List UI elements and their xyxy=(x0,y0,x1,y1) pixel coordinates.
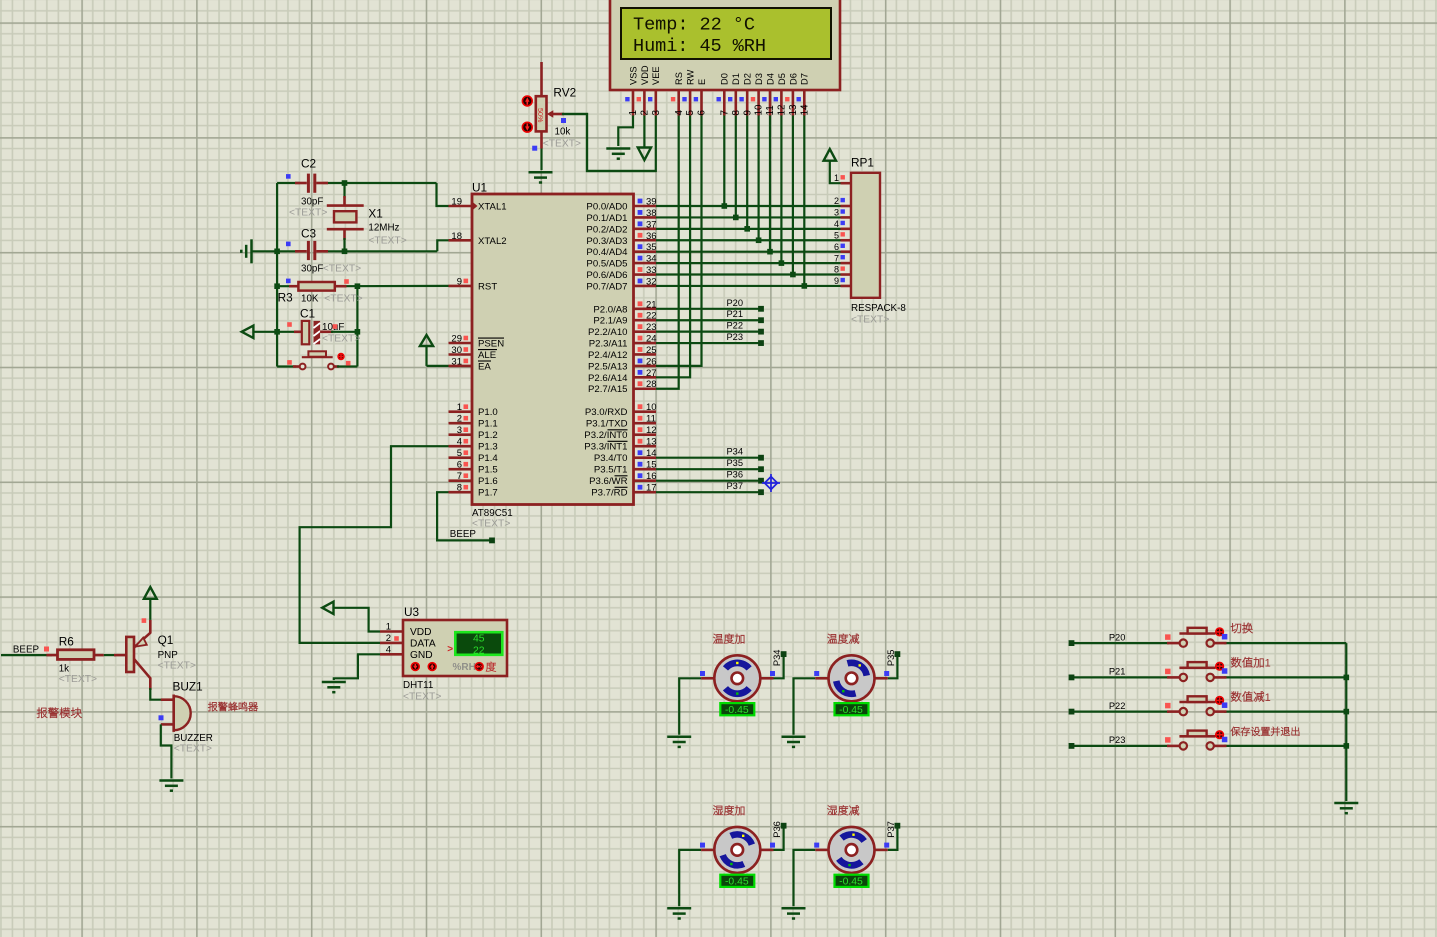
svg-text:P2.6/A14: P2.6/A14 xyxy=(588,373,628,384)
svg-text:9: 9 xyxy=(742,110,753,115)
svg-text:Q1: Q1 xyxy=(158,633,174,647)
svg-text:U3: U3 xyxy=(404,605,420,619)
svg-text:16: 16 xyxy=(646,471,657,482)
svg-text:50%: 50% xyxy=(536,108,545,123)
svg-text:38: 38 xyxy=(646,208,657,219)
svg-text:P0.6/AD6: P0.6/AD6 xyxy=(586,270,627,281)
svg-text:P0.2/AD2: P0.2/AD2 xyxy=(586,224,627,235)
svg-text:RS: RS xyxy=(674,72,684,85)
svg-text:DATA: DATA xyxy=(410,638,436,649)
svg-text:<TEXT>: <TEXT> xyxy=(289,208,327,219)
svg-text:D7: D7 xyxy=(800,73,810,85)
svg-text:9: 9 xyxy=(457,276,462,287)
svg-text:P3.5/T1: P3.5/T1 xyxy=(594,465,628,476)
svg-text:P3.2/INT0: P3.2/INT0 xyxy=(584,430,627,441)
svg-text:P1.5: P1.5 xyxy=(478,465,498,476)
svg-text:39: 39 xyxy=(646,197,657,208)
svg-text:34: 34 xyxy=(646,254,657,265)
svg-text:VSS: VSS xyxy=(628,66,638,85)
svg-text:C2: C2 xyxy=(301,157,316,171)
svg-text:2: 2 xyxy=(834,196,839,206)
svg-text:P21: P21 xyxy=(726,309,743,319)
svg-text:13: 13 xyxy=(646,437,657,448)
svg-text:7: 7 xyxy=(457,471,462,482)
svg-text:P20: P20 xyxy=(1109,632,1126,642)
svg-text:22: 22 xyxy=(646,311,657,322)
svg-text:BUZZER: BUZZER xyxy=(174,733,213,744)
svg-text:4: 4 xyxy=(674,110,685,116)
svg-text:45: 45 xyxy=(473,634,485,645)
svg-text:X1: X1 xyxy=(368,207,382,221)
svg-text:P1.2: P1.2 xyxy=(478,430,498,441)
svg-text:3: 3 xyxy=(457,425,462,436)
svg-text:>: > xyxy=(447,644,453,655)
svg-text:P2.0/A8: P2.0/A8 xyxy=(593,304,627,315)
svg-text:RP1: RP1 xyxy=(851,156,874,170)
svg-text:33: 33 xyxy=(646,265,657,276)
svg-text:P1.0: P1.0 xyxy=(478,407,498,418)
svg-text:P1.3: P1.3 xyxy=(478,442,498,453)
svg-text:1k: 1k xyxy=(59,664,69,675)
svg-text:10k: 10k xyxy=(555,126,571,137)
svg-text:P0.5/AD5: P0.5/AD5 xyxy=(586,259,627,270)
svg-text:2: 2 xyxy=(386,633,391,644)
svg-text:8: 8 xyxy=(731,110,742,116)
svg-text:P3.7/RD: P3.7/RD xyxy=(591,488,627,499)
svg-text:4: 4 xyxy=(386,644,391,655)
svg-text:P1.7: P1.7 xyxy=(478,488,498,499)
svg-text:6: 6 xyxy=(457,460,462,471)
svg-text:14: 14 xyxy=(799,104,810,115)
svg-text:29: 29 xyxy=(451,334,462,345)
svg-text:D4: D4 xyxy=(765,73,775,85)
svg-text:1: 1 xyxy=(628,110,639,115)
svg-text:D6: D6 xyxy=(788,73,798,85)
svg-text:3: 3 xyxy=(651,110,662,116)
svg-text:R6: R6 xyxy=(59,635,75,649)
svg-text:28: 28 xyxy=(646,379,657,390)
svg-text:RW: RW xyxy=(686,69,696,85)
svg-text:30pF: 30pF xyxy=(301,197,323,208)
svg-text:P3.3/INT1: P3.3/INT1 xyxy=(584,442,627,453)
svg-text:5: 5 xyxy=(834,230,839,240)
svg-text:12: 12 xyxy=(777,105,788,116)
svg-text:10: 10 xyxy=(646,402,657,413)
svg-text:P0.7/AD7: P0.7/AD7 xyxy=(586,281,627,292)
svg-text:PSEN: PSEN xyxy=(478,339,504,350)
svg-text:1: 1 xyxy=(1265,692,1271,704)
svg-text:30: 30 xyxy=(451,345,462,356)
svg-text:27: 27 xyxy=(646,368,657,379)
svg-text:P34: P34 xyxy=(726,447,743,457)
svg-text:D3: D3 xyxy=(754,73,764,85)
svg-text:22: 22 xyxy=(473,645,485,656)
svg-text:P0.4/AD4: P0.4/AD4 xyxy=(586,247,628,258)
svg-text:<TEXT>: <TEXT> xyxy=(851,315,889,326)
svg-text:P1.4: P1.4 xyxy=(478,453,498,464)
svg-text:VEE: VEE xyxy=(651,66,661,85)
svg-text:6: 6 xyxy=(697,110,708,116)
svg-text:P2.1/A9: P2.1/A9 xyxy=(593,316,627,327)
svg-text:P34: P34 xyxy=(772,650,782,667)
svg-text:PNP: PNP xyxy=(158,650,179,661)
svg-text:2: 2 xyxy=(457,414,462,425)
svg-text:<TEXT>: <TEXT> xyxy=(323,263,361,274)
svg-text:12: 12 xyxy=(646,425,657,436)
svg-text:<TEXT>: <TEXT> xyxy=(59,674,97,685)
svg-text:D2: D2 xyxy=(743,73,753,85)
svg-text:18: 18 xyxy=(451,231,462,242)
svg-text:P2.2/A10: P2.2/A10 xyxy=(588,327,627,338)
svg-text:P0.0/AD0: P0.0/AD0 xyxy=(586,202,627,213)
svg-text:P21: P21 xyxy=(1109,667,1126,677)
svg-text:-0.45: -0.45 xyxy=(839,877,863,888)
svg-text:P3.1/TXD: P3.1/TXD xyxy=(586,419,628,430)
svg-text:C1: C1 xyxy=(300,307,315,321)
svg-text:P23: P23 xyxy=(726,332,743,342)
svg-text:EA: EA xyxy=(478,361,491,372)
svg-text:P2.3/A11: P2.3/A11 xyxy=(589,339,628,350)
svg-text:<TEXT>: <TEXT> xyxy=(543,138,581,149)
svg-text:24: 24 xyxy=(646,334,657,345)
svg-text:<TEXT>: <TEXT> xyxy=(174,743,212,754)
svg-text:4: 4 xyxy=(457,437,462,448)
svg-text:P2.4/A12: P2.4/A12 xyxy=(588,350,627,361)
svg-text:<TEXT>: <TEXT> xyxy=(472,519,510,530)
svg-text:10K: 10K xyxy=(301,294,319,305)
svg-text:<TEXT>: <TEXT> xyxy=(158,661,196,672)
svg-text:P36: P36 xyxy=(726,470,743,480)
svg-text:Temp: 22 °C: Temp: 22 °C xyxy=(633,15,755,36)
svg-text:P35: P35 xyxy=(726,458,743,468)
svg-text:ALE: ALE xyxy=(478,350,496,361)
svg-text:<TEXT>: <TEXT> xyxy=(324,294,362,305)
svg-text:8: 8 xyxy=(834,265,839,275)
svg-text:XTAL2: XTAL2 xyxy=(478,236,507,247)
svg-text:36: 36 xyxy=(646,231,657,242)
svg-text:11: 11 xyxy=(646,414,656,425)
svg-text:Humi: 45 %RH: Humi: 45 %RH xyxy=(633,36,766,57)
svg-text:P23: P23 xyxy=(1109,735,1126,745)
svg-text:23: 23 xyxy=(646,322,657,333)
svg-text:7: 7 xyxy=(834,253,839,263)
svg-text:P1.6: P1.6 xyxy=(478,476,498,487)
svg-text:26: 26 xyxy=(646,356,657,367)
svg-text:C3: C3 xyxy=(301,227,317,241)
svg-text:DHT11: DHT11 xyxy=(403,680,433,691)
svg-text:BUZ1: BUZ1 xyxy=(173,679,203,693)
svg-text:P0.1/AD1: P0.1/AD1 xyxy=(586,213,627,224)
svg-text:17: 17 xyxy=(646,483,657,494)
svg-text:31: 31 xyxy=(451,356,462,367)
svg-text:-0.45: -0.45 xyxy=(725,705,749,716)
svg-text:P36: P36 xyxy=(772,821,782,838)
svg-text:8: 8 xyxy=(457,483,462,494)
svg-text:19: 19 xyxy=(451,197,462,208)
svg-text:D1: D1 xyxy=(731,73,741,85)
svg-text:BEEP: BEEP xyxy=(13,644,40,655)
svg-text:BEEP: BEEP xyxy=(450,529,477,540)
svg-text:5: 5 xyxy=(457,448,462,459)
svg-text:12MHz: 12MHz xyxy=(368,223,399,234)
svg-text:E: E xyxy=(697,79,707,85)
svg-text:RESPACK-8: RESPACK-8 xyxy=(851,303,906,314)
svg-text:13: 13 xyxy=(788,104,799,115)
svg-text:3: 3 xyxy=(834,208,839,218)
svg-text:P1.1: P1.1 xyxy=(478,419,498,430)
svg-text:11: 11 xyxy=(765,105,776,115)
svg-text:P37: P37 xyxy=(886,821,896,838)
svg-text:35: 35 xyxy=(646,242,657,253)
svg-text:<TEXT>: <TEXT> xyxy=(322,334,360,345)
svg-text:1: 1 xyxy=(1265,658,1271,670)
svg-text:25: 25 xyxy=(646,345,657,356)
svg-text:VDD: VDD xyxy=(640,65,650,85)
svg-text:4: 4 xyxy=(834,219,839,229)
svg-text:7: 7 xyxy=(719,110,730,115)
svg-text:P37: P37 xyxy=(726,481,743,491)
svg-text:6: 6 xyxy=(834,242,839,252)
svg-text:-0.45: -0.45 xyxy=(725,877,749,888)
svg-text:P3.0/RXD: P3.0/RXD xyxy=(585,407,628,418)
svg-text:RST: RST xyxy=(478,281,497,292)
svg-text:9: 9 xyxy=(834,276,839,286)
svg-text:2: 2 xyxy=(640,110,651,115)
svg-text:RV2: RV2 xyxy=(553,86,576,100)
svg-text:1: 1 xyxy=(457,402,462,413)
svg-text:P22: P22 xyxy=(1109,701,1126,711)
svg-text:14: 14 xyxy=(646,448,657,459)
svg-text:P0.3/AD3: P0.3/AD3 xyxy=(586,236,627,247)
svg-text:1: 1 xyxy=(834,173,839,183)
svg-text:37: 37 xyxy=(646,219,657,230)
svg-text:<TEXT>: <TEXT> xyxy=(368,236,406,247)
svg-text:21: 21 xyxy=(646,299,657,310)
svg-text:%RH: %RH xyxy=(453,662,476,673)
svg-text:32: 32 xyxy=(646,276,657,287)
svg-text:P2.5/A13: P2.5/A13 xyxy=(588,361,627,372)
svg-text:P20: P20 xyxy=(726,298,743,308)
svg-text:15: 15 xyxy=(646,460,657,471)
svg-text:AT89C51: AT89C51 xyxy=(472,508,513,519)
svg-text:GND: GND xyxy=(410,650,433,661)
svg-text:P35: P35 xyxy=(886,650,896,667)
svg-text:P22: P22 xyxy=(726,321,743,331)
svg-text:-0.45: -0.45 xyxy=(839,705,863,716)
svg-text:P3.6/WR: P3.6/WR xyxy=(589,476,627,487)
svg-text:XTAL1: XTAL1 xyxy=(478,202,507,213)
svg-text:VDD: VDD xyxy=(410,627,432,638)
svg-text:30pF: 30pF xyxy=(301,263,323,274)
svg-text:10: 10 xyxy=(754,104,765,115)
svg-text:5: 5 xyxy=(685,110,696,116)
svg-text:P2.7/A15: P2.7/A15 xyxy=(588,384,627,395)
svg-text:1: 1 xyxy=(386,622,391,633)
svg-text:<TEXT>: <TEXT> xyxy=(403,692,441,703)
svg-text:P3.4/T0: P3.4/T0 xyxy=(594,453,628,464)
svg-text:D0: D0 xyxy=(720,73,730,85)
svg-text:R3: R3 xyxy=(278,291,294,305)
svg-text:D5: D5 xyxy=(777,73,787,85)
svg-text:U1: U1 xyxy=(472,181,487,195)
